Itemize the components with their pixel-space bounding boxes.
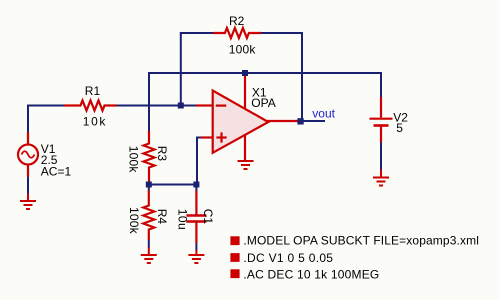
V- pin [244,134,246,160]
wire: feedback right vertical down to output [301,32,303,121]
svg-text:.AC DEC 10 1k 100MEG: .AC DEC 10 1k 100MEG [243,268,379,282]
svg-text:10k: 10k [83,114,107,128]
resistor R3 [144,131,155,185]
svg-text:R4: R4 [155,209,169,225]
svg-text:OPA: OPA [251,96,275,110]
ground (V2) [373,170,389,186]
source V1 [18,132,38,177]
wire: V2 lower segment [380,142,382,171]
svg-text:R1: R1 [85,84,101,98]
wire: C1 lower segment [195,243,197,251]
wire: node A to C1 stub [195,184,197,191]
wire: V+ rail corner down to R3 top [149,73,381,132]
wire: top feedback line right segment [261,32,303,34]
svg-text:AC=1: AC=1 [41,165,72,179]
wire: R4 lower segment [148,240,150,249]
plus symbol [216,136,226,138]
op-amp X1 [196,72,300,160]
wire: output stub to vout [300,120,325,122]
ground (V1) [20,194,36,210]
ground (op-amp V-) [238,161,254,169]
svg-text:100k: 100k [127,207,141,235]
resistor R1 [64,101,117,111]
svg-text:C1: C1 [201,209,215,225]
svg-text:.DC V1 0 5 0.05: .DC V1 0 5 0.05 [243,251,333,265]
directive marker 1 [230,236,239,245]
wire: node A to R4 stub [148,184,150,191]
svg-text:R3: R3 [155,146,169,162]
wire: V1 top riser and input line to R1 [28,106,64,134]
junction: feedback/input node [178,103,184,109]
directive marker 3 [230,269,239,278]
output lead [267,120,300,122]
junction: output node [297,118,303,124]
ground (C1) [188,250,204,263]
svg-text:.MODEL OPA SUBCKT FILE=xopamp3: .MODEL OPA SUBCKT FILE=xopamp3.xml [243,233,479,247]
svg-text:vout: vout [312,107,335,121]
minus input lead [196,104,212,106]
wire: node A horizontal bar [149,184,197,186]
wire: V1 lower segment [27,177,29,195]
minus symbol [216,104,226,106]
junction: node A left [146,182,152,188]
junction: node A right [193,182,199,188]
wire: V2 riser from rail [380,72,382,98]
wire: feedback left vertical [180,33,182,106]
svg-text:100k: 100k [229,42,257,56]
capacitor C1 [186,191,206,244]
wire: top feedback line left segment [180,32,214,34]
resistor R2 [213,28,261,38]
svg-text:100k: 100k [127,146,141,174]
directive marker 2 [230,253,239,262]
wire: input line from R1 to op-amp minus lead [117,105,197,107]
junction: V+ rail at op-amp [242,70,248,76]
battery V2 [370,97,393,143]
svg-text:R2: R2 [229,14,245,28]
wire: plus input corner and riser [197,138,202,185]
ground (R4) [141,248,157,264]
svg-text:10u: 10u [176,209,190,231]
svg-text:5: 5 [396,121,403,135]
plus input lead [201,136,212,138]
V+ pin [244,72,246,109]
resistor R4 [143,191,154,241]
